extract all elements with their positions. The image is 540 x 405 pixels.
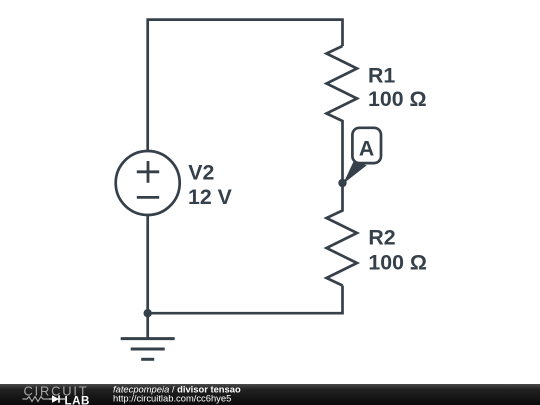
junction dot at ground node — [144, 309, 152, 317]
node A flag tail — [343, 162, 367, 184]
svg-text:R2: R2 — [368, 226, 395, 250]
wire bottom (junction to right branch) — [148, 286, 343, 314]
svg-text:12 V: 12 V — [188, 185, 233, 209]
voltage source V2 — [116, 151, 180, 215]
svg-text:100 Ω: 100 Ω — [368, 87, 427, 111]
resistor R2 — [327, 183, 358, 286]
svg-text:A: A — [359, 137, 374, 161]
wire from V2 bottom to ground junction — [146, 215, 149, 314]
svg-text:http://circuitlab.com/cc6hye5: http://circuitlab.com/cc6hye5 — [113, 393, 231, 404]
CircuitLab logo resistor squiggle — [23, 397, 50, 402]
ground — [121, 313, 175, 359]
svg-text:100 Ω: 100 Ω — [368, 251, 427, 275]
svg-text:V2: V2 — [188, 160, 214, 184]
svg-text:LAB: LAB — [65, 394, 90, 405]
CircuitLab logo diode — [49, 395, 65, 402]
svg-text:R1: R1 — [368, 63, 395, 87]
resistor R1 — [327, 46, 358, 183]
node A dot — [338, 179, 346, 187]
node A flag box — [352, 128, 381, 163]
wire top (from left branch to right branch) — [148, 20, 343, 152]
